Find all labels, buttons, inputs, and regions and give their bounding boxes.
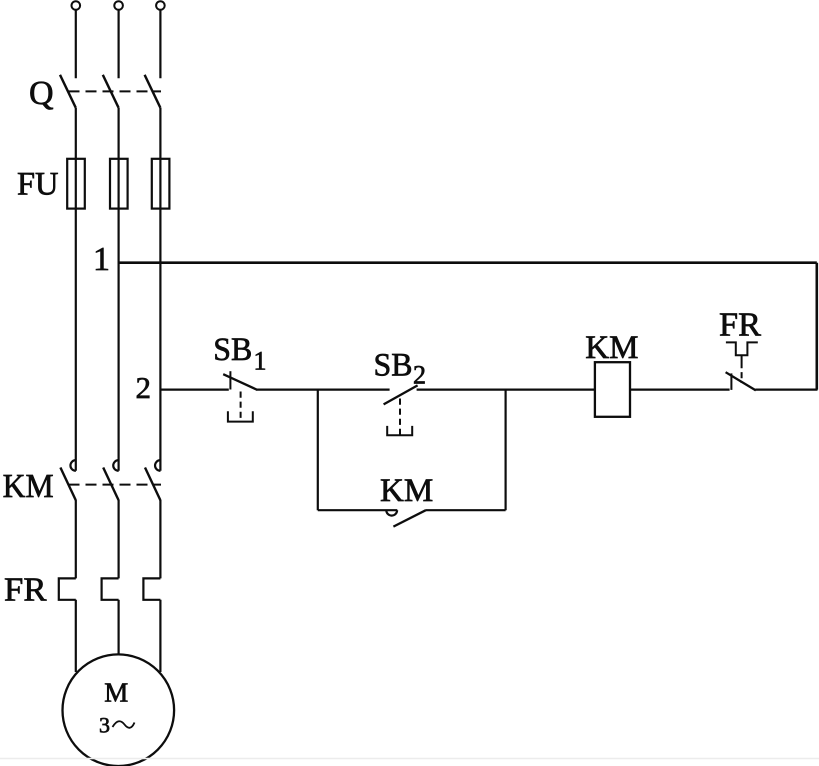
motor M circle xyxy=(63,654,175,766)
svg-text:3: 3 xyxy=(99,713,110,738)
contactor KM main pole 1 hook xyxy=(70,460,75,471)
svg-text:2: 2 xyxy=(413,361,426,390)
contact KM latch blade xyxy=(393,510,425,526)
wire phase2 FR to motor xyxy=(117,600,119,655)
scan artifact bottom line xyxy=(0,758,819,760)
wire phase1 KM to FR heater xyxy=(75,500,77,578)
button SB1 actuator bracket xyxy=(228,411,253,421)
terminal L1 xyxy=(72,1,81,10)
relay FR contact fixed tick xyxy=(730,373,732,390)
contactor KM main pole 2 blade xyxy=(103,468,118,501)
fuse FU pole 3 xyxy=(152,159,170,209)
wire line2 FR to right edge xyxy=(755,389,817,391)
label motor tilde xyxy=(113,721,135,728)
wire line2 left (node2 to SB1) xyxy=(160,389,228,391)
svg-text:FR: FR xyxy=(719,306,761,343)
wire line2 SB1 to SB2 xyxy=(257,389,390,391)
terminal L2 xyxy=(114,1,123,10)
wire phase1 through fuse down to KM contact xyxy=(75,159,77,471)
latch branch right vertical xyxy=(505,390,507,511)
contactor KM main pole 2 hook xyxy=(113,460,118,471)
latch branch bottom left wire xyxy=(318,509,398,511)
button SB2 blade xyxy=(384,385,418,404)
contactor KM main pole 1 blade xyxy=(60,468,75,501)
wire phase3 FR to motor xyxy=(159,600,161,672)
svg-text:FR: FR xyxy=(4,572,47,609)
svg-text:KM: KM xyxy=(3,468,54,505)
thermal relay FR heater pole 1 xyxy=(59,578,76,599)
relay FR release stem xyxy=(741,355,743,362)
wire phase3 through fuse down to KM contact xyxy=(159,159,161,471)
contactor KM linkage dashed xyxy=(69,484,162,486)
wire phase3 Q to FU xyxy=(159,108,161,159)
wire phase2 Q to FU xyxy=(117,108,119,159)
fuse FU pole 2 xyxy=(110,159,128,209)
relay FR contact blade xyxy=(726,372,756,390)
wire phase1 top xyxy=(75,10,77,79)
latch branch left vertical xyxy=(317,390,319,511)
svg-text:KM: KM xyxy=(380,473,433,509)
switch Q pole 3 blade xyxy=(145,75,161,108)
svg-text:SB: SB xyxy=(374,348,413,384)
contactor KM main pole 3 hook xyxy=(155,460,160,471)
fuse FU pole 1 xyxy=(67,159,85,209)
coil KM rectangle xyxy=(595,362,630,417)
thermal relay FR heater pole 3 xyxy=(143,578,160,599)
svg-text:M: M xyxy=(104,678,128,708)
button SB1 fixed contact tick xyxy=(229,371,231,389)
wire phase2 KM to FR heater xyxy=(117,500,119,578)
wire phase1 FR to motor xyxy=(75,600,77,672)
svg-text:SB: SB xyxy=(213,332,252,368)
wire phase2 top xyxy=(117,10,119,79)
wire phase3 top xyxy=(159,10,161,79)
switch Q linkage dashed xyxy=(69,90,162,92)
svg-text:FU: FU xyxy=(17,167,59,203)
relay FR release element xyxy=(726,342,758,355)
button SB1 blade xyxy=(223,374,257,390)
wire phase1 Q to FU xyxy=(75,108,77,159)
contactor KM main pole 3 blade xyxy=(145,468,160,501)
svg-text:1: 1 xyxy=(93,241,110,278)
wire phase2 through fuse down to KM contact xyxy=(117,159,119,471)
wire phase3 KM to FR heater xyxy=(159,500,161,578)
button SB1 actuator dashed xyxy=(240,392,242,421)
contact KM latch hook xyxy=(386,510,397,515)
svg-text:KM: KM xyxy=(585,330,638,366)
relay FR actuator dashed xyxy=(741,362,743,383)
wire right edge vertical xyxy=(815,263,818,390)
button SB2 actuator bracket xyxy=(387,426,412,435)
svg-text:1: 1 xyxy=(254,346,267,375)
svg-text:Q: Q xyxy=(29,75,54,112)
wire line2 KM coil to FR contact xyxy=(630,389,730,391)
button SB2 actuator dashed xyxy=(399,399,401,435)
thermal relay FR heater pole 2 xyxy=(102,578,119,599)
svg-text:2: 2 xyxy=(136,370,152,405)
wire line2 SB2 to KM coil xyxy=(417,389,595,391)
switch Q pole 2 blade xyxy=(103,75,119,108)
terminal L3 xyxy=(156,1,165,10)
latch branch bottom right wire xyxy=(426,509,506,511)
wire line1 horizontal xyxy=(119,261,817,264)
switch Q pole 1 blade xyxy=(60,75,76,108)
